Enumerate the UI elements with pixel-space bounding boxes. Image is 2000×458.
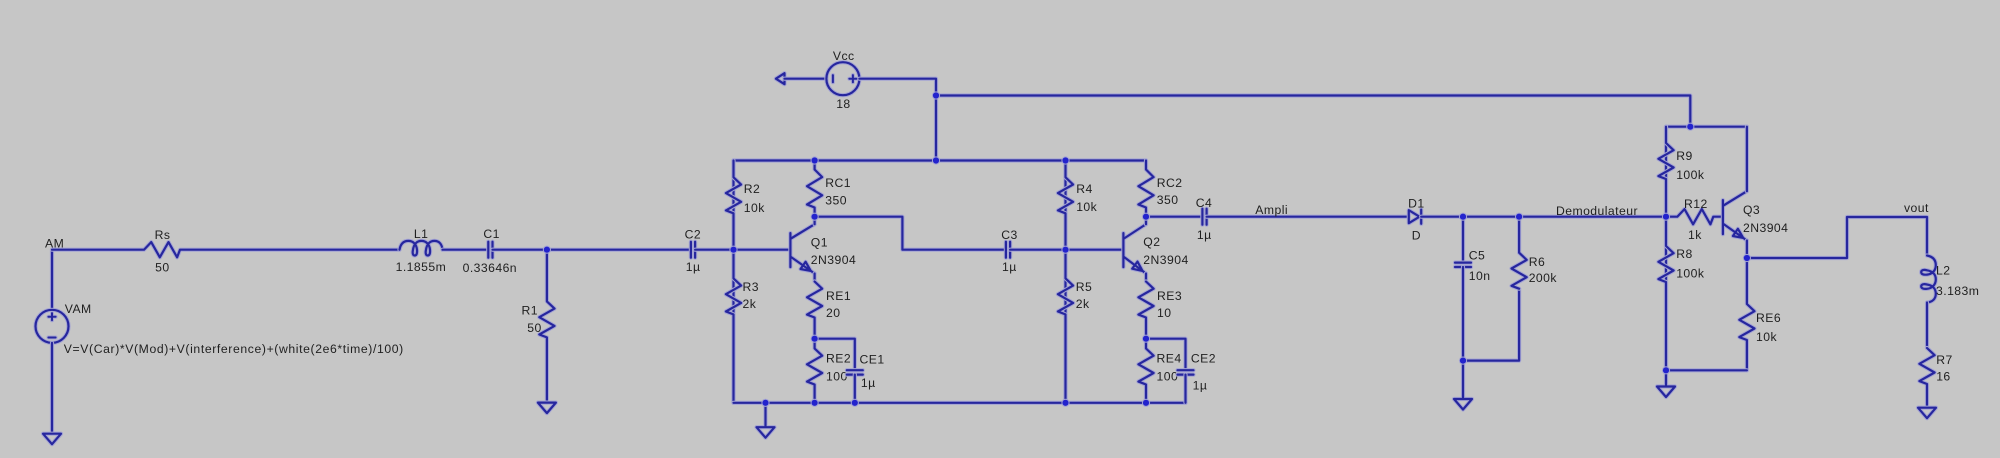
junction ground Q3 stage xyxy=(1662,366,1670,374)
svg-text:100: 100 xyxy=(1157,370,1179,384)
svg-text:Q3: Q3 xyxy=(1743,203,1760,217)
wire Vcc branch to Q3 stage xyxy=(936,96,1690,127)
svg-text:C1: C1 xyxy=(483,227,499,241)
inductor L1 xyxy=(400,241,443,256)
svg-text:VAM: VAM xyxy=(65,302,92,316)
svg-text:RE4: RE4 xyxy=(1157,352,1182,366)
svg-text:R3: R3 xyxy=(743,280,759,294)
wire Q1 base xyxy=(734,248,791,252)
svg-text:350: 350 xyxy=(1157,193,1179,207)
wire C5 top lead xyxy=(1461,217,1465,263)
left rail of stage 1 lower xyxy=(731,250,735,403)
junction R6 top xyxy=(1515,213,1523,221)
rail R9 R8 xyxy=(1664,127,1668,371)
resistor RC1 xyxy=(807,161,822,217)
resistor Rs xyxy=(52,242,400,257)
svg-text:10: 10 xyxy=(1157,306,1171,320)
resistor R6 xyxy=(1512,217,1527,289)
ground below R1 xyxy=(538,403,556,414)
capacitor C1 xyxy=(488,242,492,258)
ground below C5 xyxy=(1454,361,1472,410)
capacitor C3 xyxy=(1006,242,1010,258)
resistor R1 xyxy=(539,250,554,403)
wire C2 to base node xyxy=(695,248,733,252)
junction Vcc at top rail xyxy=(932,156,940,164)
wire Vcc to rail xyxy=(859,79,936,161)
wire C5 junction to R6 bottom xyxy=(1463,289,1519,361)
resistor RE6 xyxy=(1739,258,1754,370)
svg-text:CE1: CE1 xyxy=(860,353,885,367)
svg-text:Vcc: Vcc xyxy=(833,49,855,63)
resistor R7 xyxy=(1919,348,1934,408)
wire arrow to Vcc xyxy=(785,77,827,81)
wire C4 to D1 (net Ampli) xyxy=(1207,215,1409,219)
wire Q3 collector up xyxy=(1745,127,1749,192)
resistor RE1 xyxy=(807,282,822,339)
wire C3 to stage 2 xyxy=(1010,248,1065,252)
junction RE4 bottom xyxy=(1142,399,1150,407)
resistor RE2 xyxy=(807,339,822,403)
capacitor C4 xyxy=(1202,209,1206,225)
voltage source Vcc xyxy=(826,62,859,95)
svg-text:RC2: RC2 xyxy=(1157,176,1183,190)
svg-text:D: D xyxy=(1412,229,1421,243)
resistor R5 xyxy=(1058,250,1073,403)
wire RC2 node to C4 xyxy=(1146,215,1202,219)
junction Q3 emitter xyxy=(1743,254,1751,262)
svg-text:Q2: Q2 xyxy=(1143,235,1160,249)
svg-text:R8: R8 xyxy=(1676,247,1692,261)
svg-text:0.33646n: 0.33646n xyxy=(463,261,517,275)
svg-text:2N3904: 2N3904 xyxy=(1743,221,1788,235)
wire collector node to C3 xyxy=(815,217,1006,250)
transistor Q2 xyxy=(1123,224,1146,273)
wire Q2 collector up xyxy=(1144,217,1148,225)
diode D1 xyxy=(1409,210,1421,224)
wire D1 to C5 junction xyxy=(1421,215,1519,219)
svg-text:Rs: Rs xyxy=(155,228,171,242)
ground below R7 xyxy=(1918,408,1936,419)
inductor L2 xyxy=(1921,256,1936,303)
wire CE2 bottom xyxy=(1183,375,1187,403)
svg-text:R5: R5 xyxy=(1076,280,1092,294)
svg-text:R4: R4 xyxy=(1076,182,1092,196)
wire AM node down to VAM xyxy=(50,250,54,310)
svg-text:L1: L1 xyxy=(414,227,428,241)
svg-text:2N3904: 2N3904 xyxy=(811,253,856,267)
svg-text:L2: L2 xyxy=(1936,264,1950,278)
svg-text:1µ: 1µ xyxy=(1193,379,1208,393)
svg-text:C5: C5 xyxy=(1469,248,1485,262)
wire Q1 collector up xyxy=(812,217,816,225)
junction ground stage 1 xyxy=(761,399,769,407)
junction Vcc drop to Q3 stage xyxy=(1686,123,1694,131)
resistor R12 xyxy=(1666,209,1723,224)
junction Q2 collector node xyxy=(1142,213,1150,221)
svg-text:100k: 100k xyxy=(1676,267,1705,281)
svg-text:1µ: 1µ xyxy=(686,260,701,274)
svg-text:RC1: RC1 xyxy=(825,176,851,190)
junction Q1 collector node xyxy=(811,213,819,221)
svg-text:2k: 2k xyxy=(1076,297,1090,311)
junction C5 bottom xyxy=(1459,357,1467,365)
svg-text:10n: 10n xyxy=(1469,269,1491,283)
svg-text:vout: vout xyxy=(1904,201,1929,215)
svg-text:20: 20 xyxy=(826,306,840,320)
svg-text:C2: C2 xyxy=(685,227,701,241)
svg-text:200k: 200k xyxy=(1529,271,1558,285)
ground Q3 stage xyxy=(1657,370,1675,397)
transistor Q3 xyxy=(1723,191,1747,240)
svg-text:3.183m: 3.183m xyxy=(1936,284,1979,298)
svg-text:C4: C4 xyxy=(1196,196,1212,210)
svg-text:C3: C3 xyxy=(1001,228,1017,242)
junction Q3 base node xyxy=(1662,213,1670,221)
svg-text:V=V(Car)*V(Mod)+V(interference: V=V(Car)*V(Mod)+V(interference)+(white(2… xyxy=(64,342,404,356)
capacitor CE1 xyxy=(847,370,863,374)
svg-text:100: 100 xyxy=(826,370,848,384)
wire RE3 junction to CE2 xyxy=(1146,339,1186,368)
resistor R3 xyxy=(726,250,741,403)
junction base node Q1 xyxy=(729,246,737,254)
wire L1 to C1 xyxy=(443,248,489,252)
svg-text:100k: 100k xyxy=(1676,168,1705,182)
svg-text:16: 16 xyxy=(1936,369,1950,383)
ground below VAM xyxy=(43,434,61,445)
svg-text:RE6: RE6 xyxy=(1756,311,1781,325)
bottom rail Q3 stage xyxy=(1666,368,1747,372)
svg-text:350: 350 xyxy=(825,193,847,207)
resistor R9 xyxy=(1658,127,1673,217)
wire Q2 base xyxy=(1066,248,1124,252)
junction R4 top xyxy=(1061,156,1069,164)
arrow dangling Vcc minus lead xyxy=(776,73,785,84)
svg-text:D1: D1 xyxy=(1408,196,1424,210)
svg-text:RE3: RE3 xyxy=(1157,289,1182,303)
svg-text:50: 50 xyxy=(527,321,541,335)
junction RC1 top xyxy=(811,156,819,164)
svg-text:1µ: 1µ xyxy=(861,376,876,390)
wire CE1 bottom xyxy=(853,375,857,403)
wire Q3 emitter to vout xyxy=(1747,217,1927,258)
svg-text:R9: R9 xyxy=(1676,149,1692,163)
resistor R8 xyxy=(1658,217,1673,371)
left rail of stage 2 xyxy=(1063,161,1067,403)
junction RE1 bottom xyxy=(811,335,819,343)
capacitor C5 xyxy=(1455,263,1471,267)
capacitor CE2 xyxy=(1178,370,1194,374)
svg-text:10k: 10k xyxy=(1076,200,1097,214)
svg-text:1µ: 1µ xyxy=(1002,260,1017,274)
svg-text:R6: R6 xyxy=(1529,255,1545,269)
svg-text:1µ: 1µ xyxy=(1197,228,1212,242)
junction RE3 bottom xyxy=(1142,335,1150,343)
wire C5 bottom lead xyxy=(1461,267,1465,361)
svg-text:Ampli: Ampli xyxy=(1255,203,1288,217)
svg-text:RE2: RE2 xyxy=(826,352,851,366)
svg-text:RE1: RE1 xyxy=(826,289,851,303)
svg-text:Q1: Q1 xyxy=(811,235,828,249)
resistor RE3 xyxy=(1138,282,1153,339)
svg-text:R1: R1 xyxy=(522,303,538,317)
wire Q3 emitter down xyxy=(1745,241,1749,259)
wire RE1 junction to CE1 xyxy=(815,339,855,368)
wire to demodulator (net Demodulateur) xyxy=(1519,215,1666,219)
wire L2 to R7 xyxy=(1925,303,1929,349)
capacitor C2 xyxy=(691,242,695,258)
svg-text:2N3904: 2N3904 xyxy=(1143,253,1188,267)
wire Q3 stage top xyxy=(1666,125,1747,129)
bottom rail stage 1-2 xyxy=(734,401,1186,405)
voltage source VAM xyxy=(36,310,69,343)
svg-text:10k: 10k xyxy=(744,201,765,215)
junction C5 top xyxy=(1459,213,1467,221)
ground stage 1 xyxy=(757,403,775,438)
transistor Q1 xyxy=(790,224,814,273)
resistor R4 xyxy=(1058,161,1073,250)
wire VAM bottom to ground xyxy=(50,343,54,434)
svg-text:CE2: CE2 xyxy=(1191,352,1216,366)
svg-text:18: 18 xyxy=(836,97,850,111)
left rail of stage 1 xyxy=(731,161,735,250)
svg-text:R7: R7 xyxy=(1936,353,1952,367)
svg-text:1.1855m: 1.1855m xyxy=(396,260,447,274)
junction R5 bottom xyxy=(1061,399,1069,407)
svg-text:10k: 10k xyxy=(1756,330,1777,344)
svg-text:2k: 2k xyxy=(743,297,757,311)
junction RE2 bottom xyxy=(811,399,819,407)
svg-text:1k: 1k xyxy=(1688,228,1702,242)
resistor RE4 xyxy=(1138,339,1153,403)
resistor R2 xyxy=(726,161,741,250)
wire Q1 emitter down xyxy=(812,274,816,282)
resistor RC2 xyxy=(1138,161,1153,217)
svg-text:50: 50 xyxy=(155,260,169,274)
junction at R1 top xyxy=(543,246,551,254)
svg-text:R2: R2 xyxy=(744,182,760,196)
wire C1 to C2 xyxy=(493,248,691,252)
junction Vcc branch xyxy=(932,91,940,99)
wire Q2 emitter down xyxy=(1144,274,1148,282)
junction base node Q2 xyxy=(1061,246,1069,254)
svg-text:R12: R12 xyxy=(1684,197,1708,211)
svg-text:Demodulateur: Demodulateur xyxy=(1556,204,1638,218)
top rail xyxy=(734,158,1147,162)
junction CE1 bottom xyxy=(851,399,859,407)
